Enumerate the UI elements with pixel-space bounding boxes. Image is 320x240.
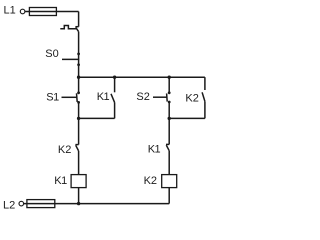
node junction dot S1/K1 [77,117,80,120]
svg-text:S0: S0 [45,48,58,60]
svg-text:K1: K1 [54,175,67,187]
pushbutton S0 (NC stop button, closed contact with terminal dots) [62,53,80,67]
wire bottom rail [24,203,170,205]
wire middle rail [79,76,205,78]
pushbutton S1 (NO start button) [62,77,81,118]
svg-text:S1: S1 [46,91,59,103]
node junction dot left branch [77,76,80,79]
node junction dot S2 branch [168,76,171,79]
contactor NC contact K1 (interlock, right branch) [166,118,169,174]
contactor NC contact K2 (interlock, left branch) [75,118,78,174]
overload relay NC contact (thermal trip) [60,26,78,32]
node junction dot K1 branch [113,76,116,79]
svg-text:K2: K2 [58,144,71,156]
svg-text:L2: L2 [3,200,15,212]
contactor NO contact K2 (self holding) [169,77,205,118]
pushbutton S2 (NO start button) [153,77,171,118]
fuse F1 [29,8,56,16]
terminal L2 [19,201,24,206]
wire top rail L1 to corner [25,11,79,13]
node junction dot S2/K2 [168,117,171,120]
node junction dot bottom [77,202,80,205]
svg-text:K1: K1 [97,91,110,103]
svg-text:S2: S2 [136,91,149,103]
svg-text:L1: L1 [4,5,16,17]
svg-text:K1: K1 [148,143,161,155]
svg-text:K2: K2 [185,92,198,104]
wire vertical from top corner down to overload contact [78,12,80,27]
coil K1 [71,175,86,204]
contactor NO contact K1 (self holding) [79,77,115,118]
coil K2 [162,175,177,204]
wire vertical through S0 down to middle rail [78,32,80,78]
svg-text:K2: K2 [144,175,157,187]
fuse F2 [27,200,55,208]
terminal L1 [20,9,25,14]
